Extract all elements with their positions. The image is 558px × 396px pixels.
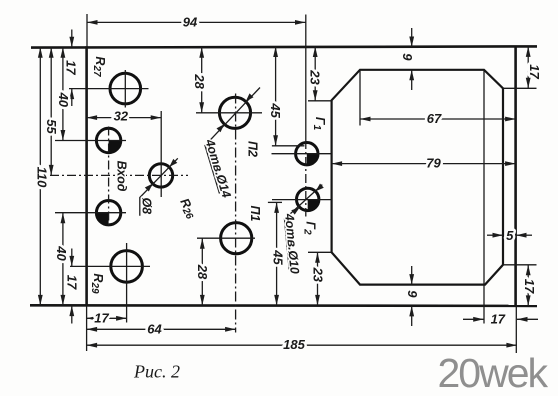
svg-text:П1: П1 xyxy=(248,206,262,222)
svg-text:17: 17 xyxy=(491,312,506,327)
svg-text:20wek: 20wek xyxy=(438,350,549,396)
svg-text:40: 40 xyxy=(54,245,69,261)
svg-text:45: 45 xyxy=(271,249,286,265)
svg-text:17: 17 xyxy=(65,275,80,290)
svg-text:4отв.Ø14: 4отв.Ø14 xyxy=(202,137,233,200)
svg-text:17: 17 xyxy=(527,64,542,79)
svg-text:40: 40 xyxy=(56,92,71,108)
svg-text:28: 28 xyxy=(192,73,207,89)
svg-text:9: 9 xyxy=(405,290,420,298)
svg-text:R29: R29 xyxy=(89,273,105,294)
svg-text:17: 17 xyxy=(94,311,109,326)
svg-text:55: 55 xyxy=(44,119,59,134)
svg-text:Ø8: Ø8 xyxy=(140,197,154,214)
svg-text:Г2: Г2 xyxy=(301,221,317,235)
svg-text:28: 28 xyxy=(195,264,210,280)
svg-text:Г1: Г1 xyxy=(311,117,327,131)
svg-text:17: 17 xyxy=(522,279,537,294)
svg-text:79: 79 xyxy=(426,156,441,171)
svg-text:32: 32 xyxy=(114,108,129,123)
svg-text:4отв.Ø10: 4отв.Ø10 xyxy=(282,212,302,274)
svg-text:R27: R27 xyxy=(91,56,107,77)
svg-text:185: 185 xyxy=(283,337,305,352)
svg-text:17: 17 xyxy=(63,60,78,75)
svg-text:94: 94 xyxy=(183,15,198,30)
svg-text:П2: П2 xyxy=(246,141,260,157)
svg-text:R26: R26 xyxy=(176,196,200,222)
svg-text:5: 5 xyxy=(506,228,514,243)
svg-text:110: 110 xyxy=(35,167,50,188)
svg-text:Рис. 2: Рис. 2 xyxy=(133,362,180,382)
svg-text:67: 67 xyxy=(427,111,442,126)
svg-text:64: 64 xyxy=(147,321,162,336)
svg-text:45: 45 xyxy=(268,102,283,118)
svg-text:Вход: Вход xyxy=(115,161,129,192)
svg-text:9: 9 xyxy=(400,53,415,61)
svg-text:23: 23 xyxy=(311,267,326,283)
svg-text:23: 23 xyxy=(308,69,323,85)
